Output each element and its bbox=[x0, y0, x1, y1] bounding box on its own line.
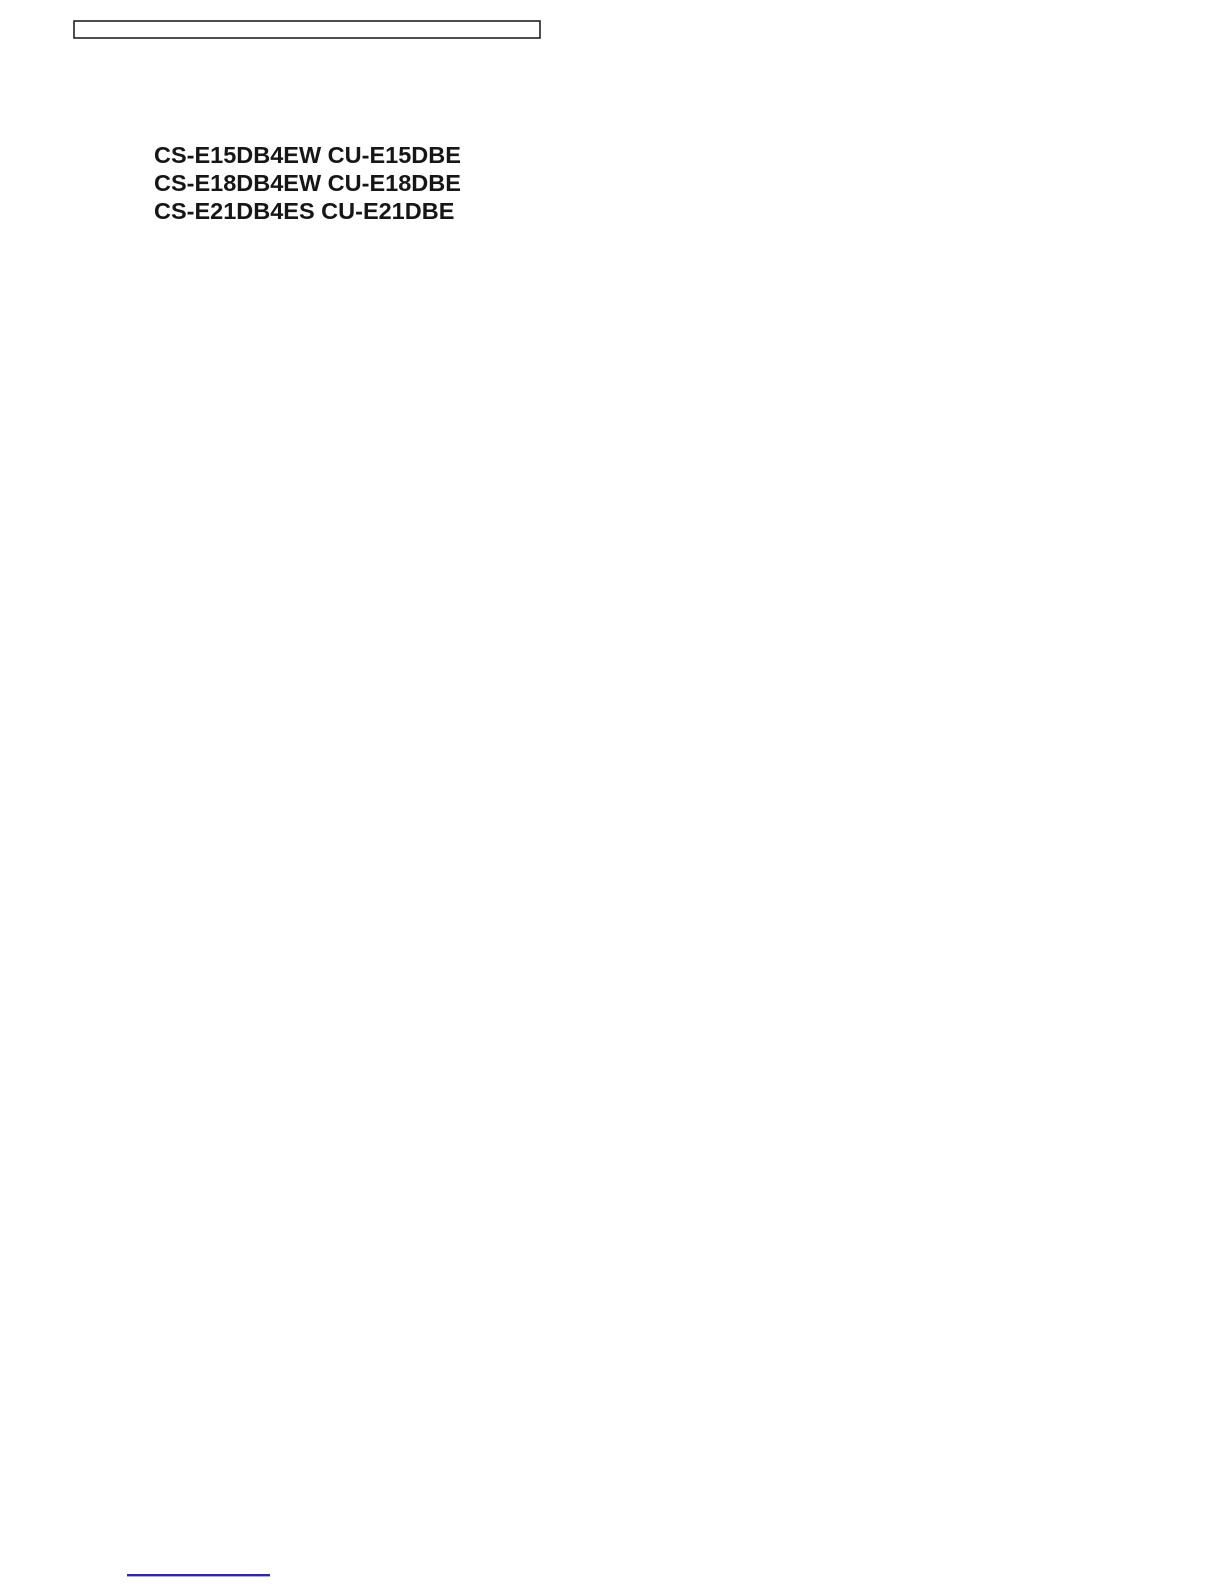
svg-text:CS-E15DB4EW CU-E15DBE: CS-E15DB4EW CU-E15DBE bbox=[154, 142, 461, 168]
title bbox=[154, 142, 461, 224]
svg-text:CS-E18DB4EW CU-E18DBE: CS-E18DB4EW CU-E18DBE bbox=[154, 170, 461, 196]
header box bbox=[74, 21, 540, 38]
svg-text:CS-E21DB4ES CU-E21DBE: CS-E21DB4ES CU-E21DBE bbox=[154, 198, 454, 224]
bottom rule bbox=[127, 1574, 270, 1576]
